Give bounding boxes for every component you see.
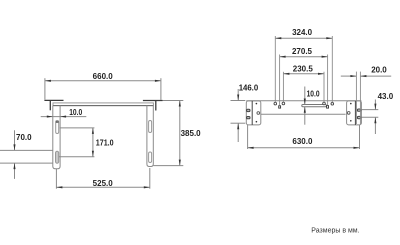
svg-text:10.0: 10.0 [69, 108, 82, 117]
left plate edge circle [257, 112, 260, 115]
left plate dot bottom [256, 121, 258, 123]
dim 324.0 ext right [331, 36, 333, 103]
right plate divider [354, 101, 356, 125]
top bar bottom edge darker [53, 105, 153, 107]
left plate dot top [256, 103, 258, 105]
dim 146.0 ext top [231, 100, 246, 102]
dim 146.0 lower arrow [237, 123, 239, 142]
dim 43.0 lower arrow [374, 117, 376, 134]
dim 270.5 ext right [327, 55, 329, 106]
svg-text:270.5: 270.5 [292, 47, 313, 56]
dim 324.0 line [275, 37, 332, 39]
dim 385.0 line [179, 101, 181, 166]
dim 20.0 left arrow [350, 75, 356, 77]
right T-tab horizontal [143, 100, 163, 102]
dim 10.0 line [41, 116, 87, 118]
left leg outline [53, 106, 60, 169]
dim 171.0 line [92, 128, 94, 157]
svg-text:70.0: 70.0 [16, 133, 32, 142]
dim 660.0 ext line left [44, 78, 46, 99]
dim 10.0 upper arrow [304, 87, 306, 105]
svg-text:630.0: 630.0 [292, 137, 313, 146]
hole circle inner-right [323, 102, 326, 105]
dim 20.0 ext right [359, 72, 361, 124]
dim 630.0 ext left [247, 125, 249, 149]
slot2 center line [59, 156, 95, 158]
dim 270.5 line [280, 56, 328, 58]
dim 270.5 ext left [279, 55, 281, 106]
right plate edge circle [347, 112, 350, 115]
dim 70.0 lower arrow [14, 163, 16, 179]
slot1 center line [60, 127, 95, 129]
svg-text:Размеры в мм.: Размеры в мм. [311, 228, 359, 235]
dim 171.0 arrow up [92, 128, 94, 134]
dim 20.0 right arrow [360, 75, 366, 77]
left plate divider [251, 101, 253, 125]
dim 146.0 ext bottom [231, 122, 246, 124]
dim 324.0 arrow right [326, 37, 332, 39]
left plate outer [246, 101, 260, 125]
left leg slot 2 [56, 151, 59, 163]
leg square right [327, 106, 329, 109]
dim 43.0 ext bottom [361, 116, 378, 118]
hole circle outer-left [274, 102, 277, 105]
bar top edge [246, 100, 361, 102]
dim 70.0 upper arrow [14, 130, 16, 150]
bar bottom edge [261, 113, 346, 115]
dim 385.0 arrow down [179, 160, 181, 166]
dim 525.0 ext left [55, 169, 57, 189]
dim 660.0 arrow left [45, 80, 51, 82]
left plate slot B [247, 117, 250, 119]
hole circle inner-left [282, 102, 285, 105]
dim 230.5 arrow left [283, 73, 289, 75]
dim 10.0 lower arrow [304, 107, 306, 125]
right leg outline [147, 106, 153, 167]
right plate slot A [357, 109, 360, 111]
strip 10.0 [302, 105, 327, 107]
plate top edge [0, 149, 53, 151]
svg-text:20.0: 20.0 [371, 66, 387, 75]
dim 146.0 upper arrow [237, 89, 239, 101]
right plate slot B [357, 116, 360, 118]
left plate slot A [247, 109, 250, 111]
svg-text:230.5: 230.5 [293, 65, 314, 74]
dim 230.5 ext left [282, 72, 284, 102]
dim 10.0 arrow right [60, 116, 66, 118]
svg-text:43.0: 43.0 [378, 92, 394, 101]
dim 171.0 arrow down [92, 151, 94, 157]
dim 43.0 upper arrow [374, 100, 376, 110]
dim 10.0 arrow left [47, 116, 53, 118]
dim 525.0 line [56, 186, 149, 188]
right plate dot bottom [350, 120, 352, 122]
right plate outer [347, 101, 362, 125]
right plate dot top [350, 103, 352, 105]
svg-text:171.0: 171.0 [96, 138, 114, 147]
dim 230.5 ext right [323, 72, 325, 102]
right leg slot 1 [149, 121, 152, 133]
dim 630.0 arrow left [248, 147, 254, 149]
dim 20.0 left leader [341, 75, 357, 77]
dim 230.5 arrow right [318, 73, 324, 75]
dim 270.5 arrow left [280, 56, 286, 58]
dim 630.0 line [248, 147, 360, 149]
dim 20.0 right leader [360, 75, 391, 77]
right leg slot 2 [149, 152, 152, 163]
top bar rectangle [53, 103, 153, 106]
hole circle outer-right [331, 103, 334, 106]
dim 660.0 arrow right [155, 80, 161, 82]
svg-text:146.0: 146.0 [239, 83, 259, 92]
dim 270.5 arrow right [322, 56, 328, 58]
dim 525.0 arrow right [144, 186, 150, 188]
dim 324.0 arrow left [275, 37, 281, 39]
svg-text:10.0: 10.0 [307, 89, 320, 98]
left leg slot 1 [56, 121, 59, 134]
dim 525.0 ext right [149, 168, 151, 189]
dim 660.0 line [45, 80, 161, 82]
svg-text:525.0: 525.0 [93, 179, 114, 188]
dim 230.5 line [283, 73, 324, 75]
dim 385.0 arrow up [179, 101, 181, 107]
dim 385.0 ext bottom [154, 165, 184, 167]
right T-tab vertical [155, 101, 157, 111]
svg-text:385.0: 385.0 [181, 129, 202, 138]
ext line to 385 dim top [163, 100, 184, 102]
dim 324.0 ext left [274, 36, 276, 102]
svg-text:660.0: 660.0 [93, 72, 114, 81]
dim 660.0 ext line right [160, 78, 162, 100]
dim 525.0 arrow left [56, 186, 62, 188]
left T-tab vertical [49, 100, 51, 110]
dim 630.0 arrow right [354, 147, 360, 149]
dim 630.0 ext right [359, 125, 361, 150]
dim 20.0 ext left [355, 72, 357, 124]
plate bottom edge [0, 162, 53, 164]
svg-text:324.0: 324.0 [292, 28, 313, 37]
dim 43.0 ext top [361, 109, 378, 111]
left T-tab horizontal [44, 99, 63, 101]
leg square left [279, 106, 281, 108]
left leg slot 1 dark top [56, 121, 59, 123]
